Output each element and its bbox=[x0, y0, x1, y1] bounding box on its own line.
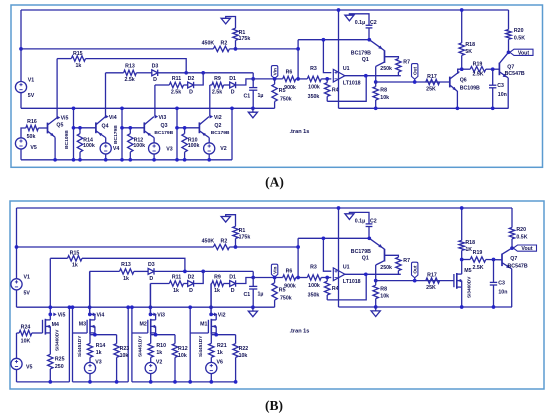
capacitor C1 bbox=[244, 79, 264, 108]
svg-text:175k: 175k bbox=[239, 36, 251, 42]
wire B rail2 right bbox=[229, 246, 298, 248]
node B C1 ground junction bbox=[251, 305, 255, 309]
wire B C2 to ground bbox=[349, 212, 369, 224]
net flag Vin bbox=[271, 66, 277, 81]
wire Q2 emitter to V2 bbox=[208, 138, 210, 144]
svg-text:1k: 1k bbox=[217, 350, 223, 356]
svg-text:2.5K: 2.5K bbox=[472, 265, 483, 271]
svg-text:BC109B: BC109B bbox=[64, 130, 70, 149]
label Si4451DY rotated M2 bbox=[138, 335, 143, 357]
wire B bias line bbox=[298, 237, 369, 239]
svg-text:(A): (A) bbox=[265, 174, 284, 189]
svg-text:Q4: Q4 bbox=[102, 123, 109, 129]
svg-text:R11: R11 bbox=[172, 76, 181, 82]
resistor R19 bbox=[462, 61, 486, 77]
voltage source V1 bbox=[15, 77, 34, 99]
svg-text:100k: 100k bbox=[133, 143, 145, 149]
wire B M4 drain bbox=[49, 314, 51, 320]
node R1 junction bbox=[234, 47, 238, 51]
wire drain jog M1 bbox=[211, 314, 216, 320]
wire B Vi2 riser bbox=[209, 284, 213, 315]
svg-text:100k: 100k bbox=[308, 283, 320, 289]
svg-text:1k: 1k bbox=[156, 350, 162, 356]
node B Vi5 node bbox=[48, 312, 65, 318]
node B Q1 emitter junction bbox=[367, 236, 371, 240]
wire B R9 to D1 bbox=[224, 283, 230, 285]
svg-text:100k: 100k bbox=[308, 84, 320, 90]
svg-text:BC179B: BC179B bbox=[154, 130, 173, 136]
svg-text:5V: 5V bbox=[24, 290, 31, 296]
wire B opamp power line bbox=[337, 206, 341, 307]
svg-text:V3: V3 bbox=[95, 359, 102, 365]
wire B opamp plus riser bbox=[322, 236, 332, 271]
svg-text:V6: V6 bbox=[217, 359, 224, 365]
node chain D2 junction bbox=[201, 71, 205, 75]
text (B) bbox=[265, 398, 283, 413]
node C3 junction bbox=[491, 67, 495, 71]
wire B node to R5 bbox=[253, 277, 283, 279]
wire Q1 base to R7 bbox=[385, 57, 399, 59]
svg-text:1k: 1k bbox=[75, 63, 81, 69]
voltage source V3 bbox=[149, 143, 173, 154]
wire B M5 drain bbox=[461, 260, 463, 275]
wire Q4 emitter to V4 bbox=[105, 138, 107, 144]
wire V to rail M1 bbox=[209, 373, 213, 384]
text .tran bbox=[290, 129, 310, 135]
svg-text:BC547B: BC547B bbox=[505, 71, 525, 77]
wire Q3 emitter to V3 bbox=[153, 138, 155, 144]
wire D1 out bbox=[236, 79, 253, 85]
wire feedback bbox=[327, 76, 366, 102]
svg-text:V3: V3 bbox=[166, 147, 173, 153]
resistor B R9 bbox=[212, 275, 224, 294]
wire Q5 collector riser bbox=[56, 59, 58, 118]
svg-text:0.5K: 0.5K bbox=[516, 235, 527, 241]
diode D1 bbox=[229, 76, 236, 95]
resistor R20 bbox=[506, 10, 525, 52]
svg-text:R1: R1 bbox=[239, 30, 246, 36]
svg-text:R20: R20 bbox=[516, 227, 526, 233]
wire R13 to D3 bbox=[136, 72, 151, 74]
wire V1 to bus bbox=[20, 92, 22, 108]
svg-text:10K: 10K bbox=[21, 338, 31, 344]
node B V1/rail2 junction bbox=[15, 245, 19, 249]
svg-text:D: D bbox=[149, 276, 153, 282]
wire B R13 to D3 bbox=[134, 270, 148, 272]
resistor B R3 bbox=[298, 265, 331, 289]
svg-text:D1: D1 bbox=[229, 76, 236, 82]
wire B box rail M3 bbox=[73, 381, 129, 383]
wire B R15 to chain bbox=[82, 258, 185, 271]
text B .tran bbox=[290, 328, 310, 334]
wire Vi2 riser bbox=[209, 85, 211, 117]
wire V3 to rail bbox=[152, 154, 156, 162]
transistor Q1 bbox=[351, 40, 385, 82]
wire B M4 source bbox=[49, 333, 51, 354]
node Vout bbox=[507, 50, 511, 54]
label BC109B rotated bbox=[64, 130, 70, 149]
svg-text:R19: R19 bbox=[473, 61, 483, 67]
svg-text:D: D bbox=[231, 288, 235, 294]
wire source bar M3 bbox=[90, 333, 117, 337]
svg-text:R20: R20 bbox=[514, 28, 524, 34]
svg-text:R3: R3 bbox=[310, 66, 317, 72]
svg-text:2.5k: 2.5k bbox=[212, 89, 222, 95]
voltage source V2 bbox=[204, 143, 227, 154]
svg-text:350k: 350k bbox=[308, 292, 320, 298]
resistor R17 bbox=[426, 74, 440, 93]
svg-text:V4: V4 bbox=[113, 146, 120, 152]
wire B feedback bbox=[327, 274, 366, 300]
node R18 R19 junction bbox=[460, 67, 464, 71]
resistor R18 bbox=[459, 8, 475, 69]
svg-text:BC179B: BC179B bbox=[211, 130, 230, 136]
svg-text:R2: R2 bbox=[221, 238, 228, 244]
svg-text:R18: R18 bbox=[465, 240, 475, 246]
transistor Q5 bbox=[48, 118, 64, 138]
wire riser M3 bbox=[89, 271, 91, 314]
resistor B R25 bbox=[48, 354, 65, 383]
wire V5 to R16 bbox=[21, 128, 26, 138]
svg-text:V5: V5 bbox=[30, 145, 37, 151]
wire B box rail M2 bbox=[132, 381, 236, 383]
svg-text:D1: D1 bbox=[229, 275, 236, 281]
ground top bbox=[221, 18, 230, 24]
svg-text:D3: D3 bbox=[148, 262, 155, 268]
svg-text:R14: R14 bbox=[96, 343, 106, 349]
svg-text:R7: R7 bbox=[403, 258, 410, 264]
svg-text:750k: 750k bbox=[280, 97, 292, 103]
svg-text:R15: R15 bbox=[70, 251, 80, 257]
wire B Vi4 riser bbox=[88, 271, 92, 314]
node Q1 collector node bbox=[374, 80, 378, 84]
ground main bbox=[248, 108, 257, 118]
svg-text:250k: 250k bbox=[380, 265, 392, 271]
wire Vi4 elbow to R13 bbox=[106, 72, 124, 74]
wire B Vi5 riser bbox=[48, 258, 52, 314]
wire rail2 right bbox=[229, 48, 298, 50]
wire B V5 column bbox=[16, 333, 18, 359]
svg-text:2.5k: 2.5k bbox=[124, 77, 134, 83]
svg-text:R13: R13 bbox=[121, 262, 131, 268]
wire cell wall 2 bbox=[121, 108, 123, 160]
svg-text:1k: 1k bbox=[173, 288, 179, 294]
wire V4 to rail bbox=[104, 154, 108, 162]
node wall3 bottom bbox=[175, 158, 179, 162]
svg-text:10k: 10k bbox=[380, 293, 389, 299]
wire cell4 base wire bbox=[175, 126, 199, 130]
resistor R23 M3 bbox=[114, 335, 129, 384]
wire Q6 emitter bbox=[456, 91, 460, 110]
svg-text:1k: 1k bbox=[214, 288, 220, 294]
svg-text:R4: R4 bbox=[332, 88, 339, 94]
svg-text:Vi5: Vi5 bbox=[61, 116, 69, 122]
svg-text:0.5K: 0.5K bbox=[514, 36, 525, 42]
svg-text:R19: R19 bbox=[473, 250, 483, 256]
resistor R13 bbox=[124, 64, 137, 84]
resistor B R7 bbox=[380, 257, 410, 274]
wire B right ground rail bbox=[339, 306, 513, 308]
voltage source V5 bbox=[15, 138, 37, 151]
svg-text:Q3: Q3 bbox=[161, 123, 168, 129]
svg-text:D: D bbox=[189, 288, 193, 294]
svg-text:Out: Out bbox=[413, 265, 418, 274]
wire riser M2 bbox=[150, 284, 152, 315]
diode B D2 bbox=[188, 275, 195, 294]
svg-text:M3: M3 bbox=[79, 322, 86, 328]
transistor B Q1 bbox=[351, 238, 385, 280]
svg-text:Si3460DV: Si3460DV bbox=[466, 276, 471, 298]
label BC179B bbox=[211, 130, 230, 136]
svg-text:R6: R6 bbox=[286, 268, 293, 274]
svg-text:R23: R23 bbox=[120, 346, 130, 352]
resistor B R2 bbox=[202, 238, 230, 249]
resistor R7 bbox=[380, 59, 410, 76]
wire Q6 collector bbox=[458, 69, 462, 74]
wire cell wall 4 bbox=[231, 108, 233, 160]
svg-text:Q5: Q5 bbox=[56, 123, 63, 129]
diode B D1 bbox=[229, 275, 236, 294]
svg-text:10k: 10k bbox=[380, 95, 389, 101]
resistor B R15 bbox=[68, 251, 83, 269]
capacitor B C3 bbox=[490, 260, 508, 309]
resistor B R11 bbox=[169, 275, 183, 294]
wire B ground bus bbox=[17, 306, 275, 308]
wire drain jog M3 bbox=[90, 314, 95, 320]
label B Si3460DV rotated bbox=[55, 329, 60, 351]
wire B gate lead M2 bbox=[132, 332, 148, 334]
node Vi M2 bbox=[149, 312, 165, 318]
capacitor C2 bbox=[355, 20, 377, 40]
svg-text:V1: V1 bbox=[24, 275, 31, 281]
resistor R14 bbox=[77, 126, 95, 162]
wire source bar M1 bbox=[211, 333, 235, 337]
svg-text:Q7: Q7 bbox=[510, 256, 517, 262]
svg-text:25K: 25K bbox=[426, 285, 436, 291]
svg-text:C3: C3 bbox=[497, 83, 504, 89]
svg-text:2.5K: 2.5K bbox=[472, 72, 483, 78]
resistor B R8 bbox=[373, 281, 389, 307]
wire R6 right riser bbox=[296, 40, 300, 81]
label Si4451DY rotated M1 bbox=[198, 335, 203, 357]
svg-text:D3: D3 bbox=[152, 64, 159, 70]
resistor R4 bbox=[308, 79, 339, 101]
node wall1 top bbox=[72, 106, 76, 110]
svg-text:350k: 350k bbox=[308, 94, 320, 100]
resistor R12 M2 bbox=[172, 335, 187, 384]
svg-text:Q6: Q6 bbox=[460, 77, 467, 83]
svg-text:V2: V2 bbox=[156, 359, 163, 365]
svg-text:R2: R2 bbox=[221, 40, 228, 46]
svg-text:1µ: 1µ bbox=[258, 291, 264, 297]
wire B M4 gate lead bbox=[32, 332, 43, 334]
svg-text:R4: R4 bbox=[332, 286, 339, 292]
panel B frame bbox=[10, 201, 544, 389]
wire B D3 out bbox=[155, 270, 254, 272]
wire node to R5 tee bbox=[253, 78, 283, 80]
node wall3 top bbox=[175, 106, 179, 110]
svg-text:LT1018: LT1018 bbox=[343, 81, 361, 87]
svg-text:M4: M4 bbox=[52, 322, 59, 328]
svg-text:R24: R24 bbox=[21, 324, 31, 330]
svg-text:D2: D2 bbox=[188, 275, 195, 281]
svg-text:D2: D2 bbox=[188, 76, 195, 82]
svg-text:Vi3: Vi3 bbox=[157, 312, 165, 318]
wire B second rail left bbox=[17, 246, 214, 248]
text (A) bbox=[265, 174, 284, 189]
resistor R10 bbox=[182, 126, 200, 162]
resistor B R1 bbox=[233, 226, 251, 247]
svg-text:10k: 10k bbox=[120, 353, 129, 359]
wire cell2 base wire bbox=[72, 126, 96, 130]
svg-text:Si4451DY: Si4451DY bbox=[198, 335, 203, 357]
svg-text:900k: 900k bbox=[284, 85, 296, 91]
wire B box1 rail bbox=[17, 381, 70, 383]
wire Q5 emitter to rail bbox=[53, 137, 57, 161]
svg-text:Q1: Q1 bbox=[362, 256, 369, 262]
capacitor B C1 bbox=[244, 278, 264, 308]
wire opamp power line bbox=[337, 8, 341, 108]
diode D3 bbox=[152, 64, 159, 84]
wire B Vi5 to R15 bbox=[50, 257, 67, 259]
svg-text:1k: 1k bbox=[72, 263, 78, 269]
svg-text:V5: V5 bbox=[26, 364, 33, 370]
node wall2 top bbox=[120, 106, 124, 110]
resistor B R6 bbox=[283, 268, 296, 289]
voltage source V6 M1 bbox=[206, 359, 223, 373]
node Vi5 bbox=[57, 116, 68, 122]
svg-text:Vin: Vin bbox=[272, 266, 277, 273]
svg-text:10k: 10k bbox=[239, 353, 248, 359]
wire V+ top rail bbox=[21, 9, 509, 11]
net flag Vout bbox=[510, 49, 533, 56]
wire D3 out bbox=[158, 72, 186, 74]
wire cell wall 3 bbox=[176, 108, 178, 160]
net flag Out bbox=[412, 64, 418, 84]
wire B box wall right M3 bbox=[126, 305, 130, 382]
svg-text:(B): (B) bbox=[265, 398, 283, 413]
transistor Q2 bbox=[199, 117, 221, 138]
wire opamp output bbox=[345, 74, 401, 78]
ground B C2 bbox=[345, 214, 354, 220]
transistor M1 bbox=[200, 319, 216, 335]
wire B box wall left M3 bbox=[71, 305, 75, 382]
svg-text:450K: 450K bbox=[202, 40, 215, 46]
wire V to rail M3 bbox=[88, 373, 92, 384]
node C1 ground junction bbox=[251, 106, 255, 110]
svg-text:Vi4: Vi4 bbox=[97, 312, 105, 318]
wire B R19 to Q7 bbox=[486, 259, 502, 261]
svg-text:V1: V1 bbox=[28, 77, 35, 83]
wire chain row1 to C1 node bbox=[186, 72, 253, 74]
svg-text:50k: 50k bbox=[27, 134, 36, 140]
svg-text:D: D bbox=[189, 89, 193, 95]
node B Vout bbox=[510, 246, 514, 250]
wire B M5 source bbox=[460, 287, 464, 309]
wire B V1 column bbox=[16, 208, 18, 279]
resistor R22 M1 bbox=[233, 335, 248, 384]
svg-text:C2: C2 bbox=[370, 219, 377, 225]
resistor R11 bbox=[169, 76, 183, 95]
wire Vi4 riser bbox=[105, 73, 107, 117]
node Q1 emitter junction bbox=[367, 38, 371, 42]
wire B box wall left M1 bbox=[188, 305, 192, 382]
label Si3460DV rotated B bbox=[466, 276, 471, 298]
node B chain D2 junction bbox=[201, 270, 205, 274]
resistor R1 bbox=[233, 28, 251, 49]
svg-text:1µ: 1µ bbox=[258, 93, 264, 99]
ground B top bbox=[221, 217, 230, 223]
svg-text:5K: 5K bbox=[465, 49, 472, 55]
wire V5 to rail bbox=[20, 149, 22, 160]
svg-text:R15: R15 bbox=[73, 51, 83, 57]
svg-text:M2: M2 bbox=[140, 322, 147, 328]
svg-text:Si4451DY: Si4451DY bbox=[77, 335, 82, 357]
svg-text:Vi2: Vi2 bbox=[218, 312, 226, 318]
wire B box1 right wall bbox=[68, 305, 72, 382]
voltage source V3 M3 bbox=[84, 359, 101, 373]
wire ground bus bbox=[21, 107, 275, 109]
svg-text:25K: 25K bbox=[426, 87, 436, 93]
resistor R5 bbox=[272, 79, 292, 108]
svg-text:Si4451DY: Si4451DY bbox=[138, 335, 143, 357]
node R8 foot bbox=[374, 106, 378, 110]
node Vi3 bbox=[155, 115, 166, 121]
wire second supply rail left bbox=[21, 48, 213, 50]
resistor R6 bbox=[283, 70, 296, 92]
node wall1 bottom bbox=[72, 158, 76, 162]
svg-text:Si3460DV: Si3460DV bbox=[55, 329, 60, 351]
wire R11 to D2 bbox=[184, 84, 188, 86]
svg-text:D: D bbox=[231, 89, 235, 95]
capacitor B C2 bbox=[355, 219, 377, 239]
wire C2 to ground bbox=[349, 14, 369, 25]
wire B opamp output bbox=[345, 272, 401, 276]
svg-text:LT1018: LT1018 bbox=[343, 279, 361, 285]
node B R8 foot bbox=[374, 305, 378, 309]
net flag B Vout bbox=[513, 245, 536, 252]
resistor B R17 bbox=[426, 272, 440, 291]
svg-text:R12: R12 bbox=[178, 346, 188, 352]
svg-text:175k: 175k bbox=[239, 234, 251, 240]
wire right ground rail bbox=[339, 107, 509, 109]
node Vin node bbox=[251, 77, 255, 81]
svg-text:R17: R17 bbox=[427, 272, 437, 278]
svg-text:900k: 900k bbox=[284, 284, 296, 290]
svg-text:C3: C3 bbox=[498, 280, 505, 286]
wire B R1 to ground bbox=[226, 215, 236, 227]
resistor B R24 bbox=[17, 324, 32, 344]
wire B Vi4 elbow to R13 bbox=[90, 270, 120, 272]
wire B Q1 base to R7 bbox=[385, 255, 399, 257]
node Vi M1 bbox=[209, 312, 225, 318]
wire R1 to ground bbox=[226, 17, 236, 29]
wire B gate lead M3 bbox=[73, 332, 88, 334]
diode D2 bbox=[188, 76, 195, 95]
svg-text:1K: 1K bbox=[465, 247, 472, 253]
svg-text:Vout: Vout bbox=[521, 246, 532, 252]
svg-text:100k: 100k bbox=[83, 143, 95, 149]
wire R9 to D1 bbox=[224, 84, 230, 86]
wire B Vi2 elbow to R9 bbox=[210, 283, 213, 285]
transistor M2 bbox=[140, 319, 156, 335]
svg-text:M1: M1 bbox=[200, 322, 207, 328]
wire B V1 to bus bbox=[16, 290, 18, 308]
wire D2 elbow bbox=[194, 73, 203, 85]
svg-text:0.1µ: 0.1µ bbox=[355, 219, 365, 225]
svg-text:R16: R16 bbox=[27, 119, 37, 125]
capacitor C3 bbox=[489, 69, 507, 110]
